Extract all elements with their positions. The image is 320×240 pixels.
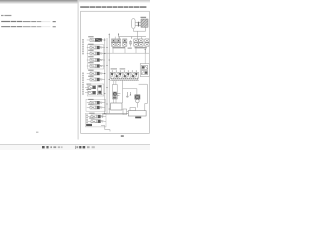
toolbar separator	[74, 146, 77, 149]
filter housing stubs	[113, 81, 115, 85]
drain symbol 2	[130, 92, 132, 95]
inter-RCV shuttle	[130, 40, 132, 46]
toolbar icon zoom-out	[76, 146, 78, 148]
RCV left group	[111, 39, 115, 42]
schematic border frame	[81, 11, 150, 133]
solenoid valve row 8	[85, 84, 96, 89]
pilot bus line C	[108, 38, 110, 114]
RCV right group	[134, 39, 138, 42]
housing side marks	[117, 93, 120, 95]
bus arrow left	[118, 33, 120, 36]
solenoid valve row 9	[85, 89, 96, 94]
base plate	[111, 103, 122, 110]
solenoid valve row 4	[87, 56, 105, 61]
page divider	[77, 0, 79, 140]
bank section marks	[111, 73, 137, 78]
pilot arrow	[144, 49, 146, 54]
filter housing	[113, 85, 118, 100]
toolbar icon next	[46, 146, 48, 148]
toolbar icon fit	[83, 146, 86, 148]
solenoid valve row 7	[87, 76, 105, 81]
pilot manifold label strip 1	[82, 39, 83, 55]
bank label text	[111, 68, 117, 69]
valve group box 2	[87, 84, 104, 96]
relief feed line	[144, 53, 146, 63]
valve dark core bottom	[86, 124, 92, 126]
RCV risers	[115, 37, 142, 39]
toolbar icon expand	[87, 146, 90, 148]
tank breather cap	[130, 108, 136, 111]
lower link pipe	[105, 126, 110, 132]
bus tick	[131, 37, 133, 39]
toolbar icon prev	[42, 146, 45, 148]
solenoid valve row 13	[88, 113, 106, 118]
solenoid valve row 12	[87, 104, 105, 109]
RCV drop lines	[112, 47, 114, 54]
bus top arrow	[108, 34, 110, 38]
pilot return line	[105, 52, 149, 54]
page background	[0, 0, 150, 150]
toolbar icon zoom-in	[79, 146, 81, 148]
right drop line	[145, 84, 148, 110]
main return pipe	[103, 112, 129, 114]
status bar background	[0, 145, 150, 150]
solenoid valve row 11	[87, 99, 105, 104]
hydraulic tank	[128, 111, 146, 116]
bus junction dots	[104, 39, 109, 114]
drain symbol 1	[126, 92, 129, 97]
solenoid valve row 2	[87, 44, 105, 49]
tank drop line	[122, 81, 124, 104]
main control valve bank	[110, 72, 138, 78]
solenoid valve row 14	[88, 118, 106, 123]
hose fitting	[135, 22, 141, 24]
solenoid valve row 1	[87, 36, 105, 41]
riser to bus	[136, 31, 138, 36]
RCV top row dark cores	[113, 40, 148, 42]
valve group box 4	[85, 113, 106, 127]
top toolbar shadow right page	[79, 0, 150, 3]
left page TOC line	[1, 21, 56, 22]
valve group box 3	[86, 99, 106, 111]
U pipe under accumulator	[133, 27, 145, 31]
pump unit	[136, 89, 138, 95]
pilot manifold label strip 3	[87, 115, 88, 127]
solenoid valve row 3	[87, 50, 105, 55]
suction strainer	[123, 109, 127, 115]
schematic title	[80, 6, 146, 7]
return header line	[139, 83, 148, 85]
pilot bus line A	[104, 38, 106, 114]
pilot manifold label strip 2	[82, 73, 83, 96]
tank label	[135, 117, 141, 119]
left RCV riser	[118, 37, 120, 39]
pilot bus line B	[106, 38, 108, 114]
RCV right label	[135, 47, 147, 48]
left page footer mark	[36, 132, 38, 133]
bank tank rail	[110, 80, 138, 82]
top bus line	[119, 36, 146, 38]
RCV left label	[112, 47, 125, 48]
accumulator	[132, 19, 135, 29]
top toolbar shadow left page	[0, 0, 78, 4]
pump feed line	[123, 88, 137, 90]
toolbar page label	[50, 146, 52, 148]
valve group box 1	[88, 45, 104, 69]
toolbar page input	[58, 146, 60, 148]
status bar border	[0, 144, 150, 146]
left page heading text	[1, 15, 11, 16]
left page TOC line 2	[1, 26, 56, 27]
bank pilot caps top	[112, 70, 136, 72]
proportional valve cluster	[97, 85, 99, 95]
relief valve block right	[140, 64, 149, 77]
solenoid valve row 5	[87, 62, 105, 67]
breaker block	[141, 17, 147, 18]
drawing number	[121, 135, 124, 137]
toolbar icon menu	[92, 146, 95, 148]
filter check valve	[113, 92, 117, 96]
bank spring caps bottom	[111, 78, 138, 80]
solenoid valve row 6	[87, 70, 105, 75]
